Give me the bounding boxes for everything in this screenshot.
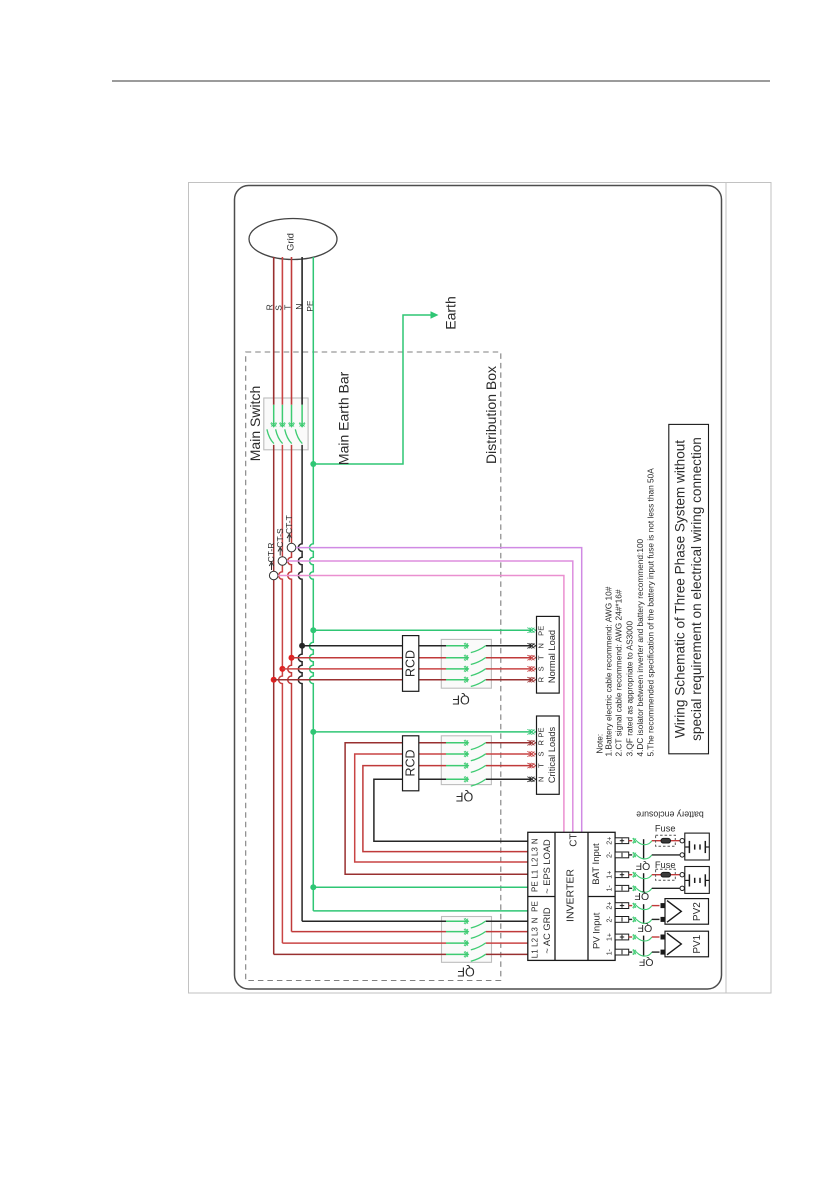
svg-text:battery enclosure: battery enclosure [636, 810, 704, 820]
DC isolator QF [643, 936, 645, 957]
switch blade [471, 954, 486, 961]
wire [446, 753, 468, 755]
QF breaker critical loads [441, 736, 491, 785]
DC isolator QF [643, 904, 645, 924]
svg-text:QF: QF [638, 922, 653, 934]
svg-text:2-: 2- [606, 851, 613, 858]
svg-text:L1: L1 [530, 869, 539, 878]
switch arrow [464, 666, 468, 671]
svg-text:R: R [537, 676, 546, 682]
node R tap [271, 677, 277, 683]
Normal Load box [537, 616, 560, 693]
svg-text:3.QF rated as appropriate to A: 3.QF rated as appropriate to AS3000 [625, 621, 635, 757]
svg-text:Fuse: Fuse [655, 823, 676, 833]
wire EPS L1 to critical load R [345, 743, 528, 874]
wire EPS L2 to critical load S [355, 754, 528, 862]
inverter divider left col [554, 832, 556, 960]
wire terminal stub [629, 936, 633, 938]
svg-text:1-: 1- [606, 948, 613, 955]
svg-text:QF: QF [639, 956, 654, 968]
svg-text:CT-T: CT-T [284, 515, 294, 534]
wire [446, 742, 468, 744]
CT arrow [279, 549, 281, 556]
svg-text:N: N [530, 838, 539, 844]
wire BAT1+ to fuse [652, 874, 660, 876]
wire R to normal load [274, 679, 403, 681]
switch arrow [464, 941, 468, 946]
wire [446, 953, 468, 955]
RCD normal load [403, 636, 419, 692]
switch arrow [633, 886, 636, 891]
wire [446, 645, 468, 647]
svg-text:INVERTER: INVERTER [565, 869, 577, 922]
wire PE to critical loads [313, 731, 531, 733]
svg-text:Earth: Earth [443, 296, 459, 329]
wire terminal stub [629, 840, 633, 842]
bus T [288, 445, 292, 658]
wire PV2- [652, 918, 660, 920]
wire [446, 679, 468, 681]
node T tap [289, 655, 295, 661]
node PE tap EPS [310, 884, 316, 890]
svg-text:Wiring Schematic of Three Phas: Wiring Schematic of Three Phase System w… [673, 440, 688, 738]
battery cells [685, 879, 690, 881]
switch blade [295, 429, 302, 443]
svg-text:CT: CT [569, 833, 580, 846]
grid source G1 [249, 219, 337, 260]
switch arrow [464, 919, 468, 924]
battery BT2 [685, 867, 710, 894]
main switch box [264, 398, 308, 450]
wire [281, 405, 283, 427]
switch blade [471, 921, 486, 928]
switch blade [637, 952, 652, 956]
switch blade [637, 937, 652, 941]
switch blade [471, 765, 486, 772]
switch arrow [300, 422, 305, 426]
Distribution Box boundary [246, 352, 501, 981]
svg-text:special requirement on electri: special requirement on electrical wiring… [689, 437, 704, 741]
wire PV1+ [652, 936, 660, 938]
svg-text:1.Battery electric cable recom: 1.Battery electric cable recommend: AWG … [604, 586, 614, 756]
switch arrow [633, 903, 636, 908]
battery terminal [680, 839, 684, 843]
switch blade [637, 841, 652, 845]
switch arrow [633, 935, 636, 940]
bus S lower [279, 669, 283, 943]
svg-text:T: T [537, 763, 546, 768]
bus N lower [298, 646, 302, 921]
CT sensor CT-R [269, 571, 278, 580]
earth arrow [431, 311, 439, 319]
svg-text:PE: PE [530, 901, 539, 912]
wire [446, 920, 468, 922]
svg-text:QF: QF [457, 965, 475, 979]
wire T from grid [291, 257, 293, 405]
frame divider [725, 183, 727, 994]
bus R lower [273, 680, 275, 955]
switch blade [471, 779, 486, 786]
PV symbol [667, 901, 681, 923]
switch blade [471, 680, 486, 687]
svg-text:QF: QF [636, 860, 651, 872]
QF breaker AC grid [442, 917, 492, 963]
svg-text:L3: L3 [530, 847, 539, 856]
svg-text:5.The recommended specificatio: 5.The recommended specification of the b… [646, 468, 656, 757]
switch blade [267, 429, 274, 443]
svg-text:QF: QF [455, 790, 473, 804]
PV terminal [661, 904, 665, 908]
svg-text:S: S [537, 751, 546, 756]
wire S from grid [281, 257, 283, 405]
switch blade [637, 906, 652, 910]
svg-text:S: S [537, 666, 546, 671]
switch blade [637, 875, 652, 879]
wire EPS N to critical load N [374, 779, 528, 841]
DC isolator QF [643, 873, 645, 893]
CT signal wire CT-T [296, 548, 582, 833]
Critical Loads box [537, 716, 560, 794]
CT sensor CT-T [287, 543, 296, 552]
wire L1 to AC grid [274, 953, 446, 955]
wire PE to normal load [313, 629, 531, 631]
wire S to normal load [282, 668, 402, 670]
svg-text:Fuse: Fuse [655, 860, 676, 870]
switch blade [471, 943, 486, 950]
switch arrow [464, 655, 468, 660]
wire [446, 778, 468, 780]
svg-text:PV Input: PV Input [592, 912, 603, 949]
switch arrow [464, 643, 468, 648]
CT arrow [271, 563, 273, 570]
svg-text:QF: QF [452, 693, 470, 707]
bus R [273, 445, 275, 680]
svg-text:Critical Loads: Critical Loads [547, 726, 557, 783]
switch blade [471, 646, 486, 653]
switch blade [637, 855, 652, 859]
PV terminal [661, 935, 665, 939]
svg-text:1+: 1+ [606, 933, 613, 941]
switch blade [285, 429, 292, 443]
svg-text:T: T [537, 655, 546, 660]
wire BAT1- to battery [652, 887, 680, 889]
svg-text:2+: 2+ [606, 902, 613, 910]
switch arrow [464, 952, 468, 957]
schematic border [235, 186, 722, 990]
wire PE to AC grid [313, 910, 528, 912]
switch arrow [280, 422, 285, 426]
wire PV2+ [652, 905, 660, 907]
wire [446, 942, 468, 944]
battery BT1 [685, 833, 710, 860]
fuse F2 [656, 869, 676, 880]
svg-text:2-: 2- [606, 916, 613, 923]
svg-text:PE: PE [530, 881, 539, 892]
title box [669, 424, 709, 753]
svg-text:L3: L3 [530, 927, 539, 936]
PV terminal [661, 950, 665, 954]
RCD critical loads [403, 736, 419, 791]
svg-text:PV1: PV1 [692, 934, 703, 953]
svg-text:2.CT signal cable recommend: A: 2.CT signal cable recommend: AWG 24#*16# [614, 589, 624, 756]
svg-text:~ AC GRID: ~ AC GRID [542, 907, 552, 954]
battery terminal [680, 853, 684, 857]
header rule [112, 80, 770, 82]
svg-text:QF: QF [635, 890, 650, 902]
node PE tap critical [310, 729, 316, 735]
wire terminal stub [629, 905, 633, 907]
svg-text:1+: 1+ [606, 871, 613, 879]
svg-text:N: N [537, 777, 546, 782]
wire PV1- [652, 951, 660, 953]
wire [446, 668, 468, 670]
switch arrow [633, 853, 636, 858]
svg-text:~ EPS LOAD: ~ EPS LOAD [542, 839, 552, 894]
wire BAT2- to battery [652, 854, 680, 856]
wire N to normal load [302, 645, 402, 647]
wire L3 to AC grid [292, 931, 447, 933]
svg-text:RCD: RCD [404, 650, 418, 677]
svg-text:Distribution Box: Distribution Box [483, 366, 499, 464]
node main earth junction [310, 461, 316, 467]
wire PE to EPS load [313, 886, 528, 888]
wire terminal stub [629, 854, 633, 856]
switch arrow [464, 929, 468, 934]
wire L2 to AC grid [282, 942, 446, 944]
svg-text:Main Earth Bar: Main Earth Bar [336, 371, 352, 465]
switch arrow [464, 751, 468, 756]
PV module PV2 [665, 899, 709, 925]
svg-text:L2: L2 [530, 857, 539, 866]
switch arrow [633, 872, 636, 877]
svg-text:L1: L1 [530, 949, 539, 958]
wire N from grid [301, 257, 303, 405]
switch arrow [464, 677, 468, 682]
wire N to AC grid [302, 920, 402, 922]
wire EPS L3 to critical load T [363, 766, 528, 852]
svg-text:PV2: PV2 [692, 902, 703, 921]
switch arrow [289, 422, 294, 426]
svg-text:CT-S: CT-S [275, 528, 285, 548]
svg-text:N: N [530, 917, 539, 923]
figure frame [189, 183, 772, 994]
node S tap [279, 666, 285, 672]
wire terminal stub [629, 874, 633, 876]
wire [446, 765, 468, 767]
wire [273, 405, 275, 427]
svg-text:L2: L2 [530, 937, 539, 946]
svg-text:Grid: Grid [286, 233, 297, 251]
wire R from grid [273, 257, 275, 405]
battery terminal [680, 873, 684, 877]
svg-text:BAT Input: BAT Input [591, 843, 602, 885]
wire terminal stub [629, 887, 633, 889]
switch blade [471, 743, 486, 750]
CT signal wire CT-R [278, 576, 564, 833]
bus N [298, 445, 302, 646]
wire T to normal load [292, 657, 403, 659]
svg-text:R: R [537, 740, 546, 746]
svg-text:4.DC isolator between inverter: 4.DC isolator between inverter and batte… [635, 538, 645, 756]
bus S [279, 445, 283, 669]
switch arrow [633, 950, 636, 955]
svg-text:N: N [294, 304, 304, 310]
bus PE lower [309, 630, 313, 911]
switch arrow [464, 777, 468, 782]
switch blade [471, 669, 486, 676]
wire [301, 405, 303, 427]
svg-text:PE: PE [537, 626, 546, 636]
switch blade [637, 919, 652, 923]
switch blade [637, 888, 652, 892]
switch blade [471, 931, 486, 938]
wire [291, 405, 293, 427]
svg-text:RCD: RCD [404, 749, 418, 776]
QF breaker normal load [441, 639, 491, 688]
node N tap [299, 643, 305, 649]
wire earth branch [313, 315, 433, 464]
switch blade [276, 429, 283, 443]
switch arrow [271, 422, 276, 426]
PV terminal [661, 917, 665, 921]
battery terminal [680, 886, 684, 890]
bus PE [309, 257, 313, 630]
fuse F1 [656, 835, 676, 846]
svg-text:N: N [537, 643, 546, 648]
switch arrow [464, 763, 468, 768]
CT sensor CT-S [278, 557, 287, 566]
switch arrow [633, 838, 636, 843]
switch arrow [464, 740, 468, 745]
inverter U1 [528, 832, 615, 960]
switch arrow [633, 917, 636, 922]
wire [446, 931, 468, 933]
svg-text:T: T [283, 305, 293, 310]
svg-text:PE: PE [537, 727, 546, 737]
wire terminal stub [629, 951, 633, 953]
svg-text:CT-R: CT-R [266, 543, 276, 563]
wire [446, 657, 468, 659]
switch blade [471, 658, 486, 665]
svg-text:2+: 2+ [606, 837, 613, 845]
CT signal wire CT-S [287, 561, 573, 832]
wire terminal stub [629, 918, 633, 920]
svg-text:Main Switch: Main Switch [247, 386, 263, 461]
PV symbol [667, 933, 681, 955]
bus T lower [288, 658, 292, 932]
PV module PV1 [665, 931, 709, 957]
node PE tap normal [310, 627, 316, 633]
switch blade [471, 754, 486, 761]
svg-text:1-: 1- [606, 885, 613, 892]
battery cells [685, 846, 690, 848]
DC isolator QF [643, 839, 645, 859]
svg-text:Normal Load: Normal Load [547, 630, 557, 683]
CT arrow [288, 535, 290, 542]
wire BAT2+ to fuse [652, 840, 660, 842]
